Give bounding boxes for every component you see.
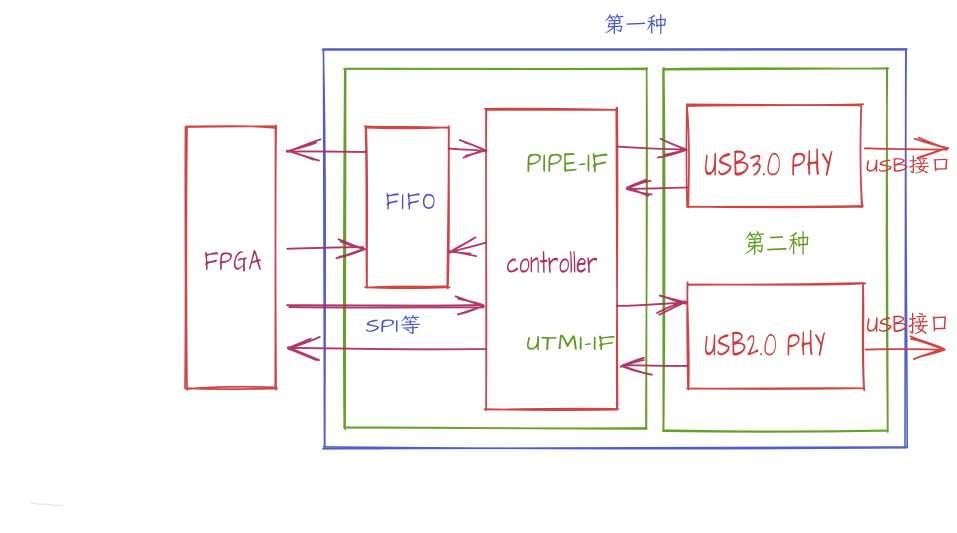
arrow USB3.0 PHY to controller bbox=[627, 180, 688, 196]
arrow USB2.0 PHY to controller bbox=[621, 358, 688, 375]
arrow controller to FIFO bbox=[449, 237, 486, 256]
arrow USB2.0 PHY out (USB port) bbox=[866, 336, 945, 359]
faint pencil mark bbox=[30, 502, 63, 505]
label SPI等 bbox=[366, 315, 420, 334]
green inner box left (controller group) bbox=[344, 68, 648, 429]
label FIFO bbox=[387, 193, 435, 210]
label 第一种 (scheme 1) bbox=[605, 14, 666, 34]
label USB2.0 PHY bbox=[705, 330, 825, 356]
blue outer box (scheme 1 container) bbox=[322, 49, 907, 449]
label controller bbox=[507, 251, 597, 273]
label PIPE-IF bbox=[528, 153, 608, 172]
block controller (PIPE-IF/UTMI-IF) bbox=[485, 107, 618, 410]
arrow controller to FPGA bbox=[288, 337, 486, 360]
arrow controller to USB3.0 PHY bbox=[617, 139, 686, 158]
arrow FPGA to FIFO bbox=[287, 239, 365, 258]
arrow USB3.0 PHY out (USB port) bbox=[865, 138, 948, 158]
label USB接口 bottom bbox=[867, 313, 946, 335]
block USB3.0 PHY bbox=[686, 104, 863, 207]
arrow FPGA to controller (SPI) bbox=[287, 296, 484, 314]
label USB3.0 PHY bbox=[705, 149, 833, 177]
arrow FIFO to FPGA bbox=[287, 139, 367, 160]
block FPGA bbox=[185, 126, 277, 390]
green inner box right (PHY group) bbox=[663, 68, 889, 432]
block FIFO bbox=[365, 126, 450, 289]
arrow FIFO to controller bbox=[449, 140, 487, 158]
arrow controller to USB2.0 PHY bbox=[617, 296, 687, 315]
label 第二种 (scheme 2) bbox=[745, 231, 809, 255]
label UTMI-IF bbox=[527, 335, 615, 351]
label FPGA bbox=[205, 250, 261, 272]
block USB2.0 PHY bbox=[687, 282, 865, 390]
label USB接口 top bbox=[867, 156, 948, 174]
